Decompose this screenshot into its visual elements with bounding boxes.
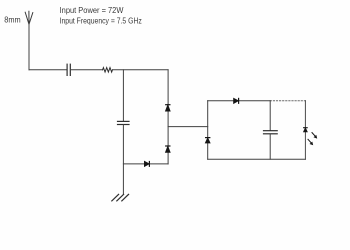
diode D5 (box left edge) [206,138,210,143]
diode D1 [166,105,170,111]
box top edge (solid part) [208,100,271,102]
diode D2 [166,146,170,152]
capacitor C3 [264,131,278,134]
capacitor C2 (shunt) [118,121,130,124]
svg-text:8mm: 8mm [4,15,20,25]
LED arrow 1 [312,133,317,139]
wire antenna down [28,24,30,70]
diode D3 [145,162,150,167]
wire antenna to C1 [29,69,67,71]
wire node to box [168,126,208,128]
wire C1 to R1 [71,69,103,71]
wire right vertical line [167,70,169,164]
LED D6 [304,128,308,132]
svg-text:Input Frequency = 7.5 GHz: Input Frequency = 7.5 GHz [60,16,142,26]
wire R1 to corner [113,69,169,71]
LED arrow 2 [308,139,313,145]
wire bottom branch to D3 [123,163,168,165]
resistor R1 [103,68,113,73]
box bottom edge [208,158,306,160]
box left edge [207,101,209,160]
box right edge [304,101,306,160]
wire C2 to ground [122,125,124,194]
box top edge (dotted part) [270,100,305,102]
ground [112,194,129,201]
diode D4 (top edge) [234,98,239,103]
wire capacitor branch top [269,101,271,131]
antenna ANT1 [25,11,33,24]
svg-text:Input Power = 72W: Input Power = 72W [60,5,125,15]
wire capacitor branch bottom [269,134,271,159]
wire shunt branch down to C2 [122,70,124,121]
capacitor C1 (series) [67,64,70,75]
